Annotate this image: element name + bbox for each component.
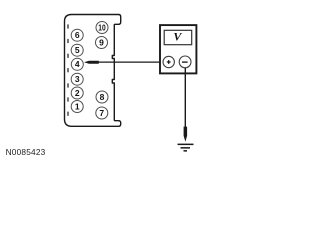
connector rib dash 7	[67, 112, 68, 116]
pin 3	[71, 73, 83, 85]
svg-text:2: 2	[75, 88, 80, 98]
connector rib dash 2	[67, 39, 68, 43]
wire from minus terminal to ground	[184, 68, 186, 127]
pin 4	[71, 58, 83, 70]
svg-text:V: V	[173, 30, 182, 44]
svg-text:6: 6	[75, 30, 80, 40]
pin 9	[96, 37, 108, 49]
pin 10	[96, 22, 108, 34]
pin 1	[71, 101, 83, 113]
svg-text:7: 7	[99, 108, 104, 118]
connector rib dash 6	[67, 97, 68, 101]
voltmeter box U1	[160, 25, 196, 73]
probe arrow at pin 4	[84, 61, 99, 64]
connector body outline	[65, 15, 121, 127]
svg-text:1: 1	[75, 101, 80, 111]
svg-text:N0085423: N0085423	[6, 147, 46, 157]
connector rib dash 5	[67, 83, 68, 87]
connector rib dash 3	[67, 54, 68, 58]
pin 7	[96, 107, 108, 119]
svg-text:9: 9	[99, 37, 104, 47]
svg-text:8: 8	[100, 92, 105, 102]
pin 5	[71, 44, 83, 56]
connector rib dash 4	[67, 68, 68, 72]
pin 2	[71, 87, 83, 99]
pin 8	[96, 91, 108, 103]
svg-text:3: 3	[75, 74, 80, 84]
svg-text:4: 4	[75, 59, 80, 69]
ground symbol bar 1	[178, 144, 194, 146]
svg-text:5: 5	[75, 45, 80, 55]
ground symbol bar 3	[184, 150, 188, 152]
connector rib dash 1	[67, 24, 68, 28]
wire from voltmeter plus terminal to pin 4	[99, 61, 164, 63]
voltmeter display window	[164, 30, 192, 44]
ground symbol bar 2	[181, 147, 191, 149]
svg-text:10: 10	[98, 22, 106, 32]
plus terminal	[163, 56, 174, 67]
minus terminal	[179, 56, 191, 68]
ground probe tip	[184, 127, 188, 142]
pin 6	[71, 29, 83, 41]
